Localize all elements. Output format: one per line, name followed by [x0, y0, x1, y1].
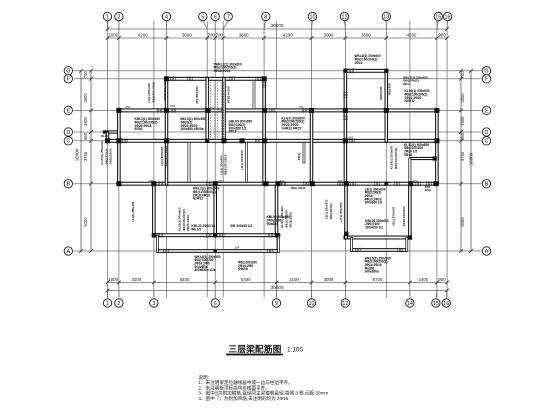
beam bath beam (14-15) — [410, 157, 438, 159]
beam KL on axis E (2-15) — [117, 109, 438, 112]
column C/2 — [116, 138, 121, 143]
svg-text:250: 250 — [125, 105, 130, 109]
beam grid 13 (G-C) — [385, 69, 388, 142]
svg-text:ΦΦ 300x65 1/2: ΦΦ 300x65 1/2 — [230, 224, 252, 228]
svg-text:KL30: KL30 — [101, 134, 108, 138]
svg-text:16: 16 — [445, 14, 451, 20]
grid bubble A left — [64, 247, 72, 255]
grid line 7 — [222, 21, 224, 298]
svg-text:200: 200 — [148, 179, 153, 183]
stirrup ticks grid 12 beam G-F — [343, 93, 348, 98]
axis line G — [74, 70, 482, 72]
leader line grid 6 top — [214, 21, 216, 29]
svg-text:4、图中「」为附加吊筋,未注明的均为 2Φ16: 4、图中「」为附加吊筋,未注明的均为 2Φ16 — [198, 395, 288, 402]
svg-text:9: 9 — [275, 301, 278, 307]
column B/10 — [310, 181, 315, 186]
stirrup ticks B beam x418 — [416, 181, 421, 186]
column C/1 — [105, 138, 110, 143]
dimension ticks left individual line — [89, 69, 93, 253]
grid bubble B right — [482, 180, 490, 188]
grid line 6 — [214, 21, 216, 298]
grid bubble G left — [64, 67, 72, 75]
grid bubble D right — [482, 128, 490, 136]
column E/10 — [309, 108, 314, 113]
dimension line right individual — [460, 71, 462, 251]
beam grid 3 below B — [153, 185, 156, 237]
grid line 10 — [311, 21, 313, 298]
axis line E — [74, 109, 482, 111]
leader line grid 1 bottom — [107, 291, 109, 299]
stirrup ticks B beam x306 — [304, 181, 309, 186]
svg-text:200: 200 — [413, 179, 418, 183]
beam KL on axis B (2-15) — [117, 182, 438, 185]
beam D axis stub (1-2) — [104, 131, 119, 133]
leader line grid 3 bottom — [153, 291, 155, 299]
stirrup ticks mid beam right of 3 — [158, 233, 163, 238]
stirrup ticks A beam x166 — [164, 249, 169, 254]
svg-text:2: 2 — [117, 301, 120, 307]
svg-text:D: D — [485, 130, 489, 136]
stirrup ticks C beam right of 12 — [350, 139, 355, 144]
stirrup ticks B beam x377 — [375, 181, 380, 186]
column C/7 — [221, 138, 226, 143]
svg-text:700: 700 — [460, 71, 465, 79]
grid bubble 15 bottom — [432, 299, 440, 307]
grid bubble 1 bottom — [103, 299, 111, 307]
svg-text:3000: 3000 — [324, 32, 334, 37]
beam stair wall grid 5 (F-C) — [206, 77, 209, 142]
svg-text:3100: 3100 — [132, 277, 142, 282]
svg-text:900: 900 — [438, 32, 446, 37]
svg-text:3100: 3100 — [289, 277, 299, 282]
beam KL on axis F (4-8) — [167, 77, 267, 80]
svg-text:850: 850 — [83, 132, 88, 140]
beam grid 1 (D-C) — [106, 132, 109, 141]
grid bubble 2 bottom — [115, 299, 123, 307]
grid line 13 — [385, 21, 387, 298]
grid bubble 12 bottom — [341, 299, 349, 307]
svg-text:6000: 6000 — [83, 217, 88, 227]
beam partition beam x189 (C-B) — [188, 142, 190, 182]
svg-text:2: 2 — [117, 14, 120, 20]
grid line 4 — [166, 21, 168, 298]
svg-text:5400: 5400 — [180, 277, 190, 282]
column mid/12 — [344, 232, 348, 236]
svg-text:4: 4 — [165, 14, 168, 20]
svg-text:D: D — [66, 130, 70, 136]
column C/15 — [434, 138, 439, 143]
stirrup ticks grid 12 beam below E — [343, 115, 348, 120]
column E/2 — [116, 108, 121, 113]
grid bubble F left — [64, 75, 72, 83]
stair flight dashed beams (grids 5-7) — [208, 82, 224, 138]
dimension ticks left overall line — [79, 69, 83, 253]
beam balcony edge x407 (A) — [406, 238, 408, 252]
svg-text:2Φ(1): 2Φ(1) — [297, 153, 301, 161]
grid bubble 3 bottom — [150, 299, 158, 307]
beam WKL on axis A right (12-14) — [351, 249, 408, 252]
leader line grid 12 bottom — [344, 291, 346, 299]
grid bubble 6 bottom — [211, 299, 219, 307]
grid bubble 12 top — [340, 12, 348, 20]
svg-text:10: 10 — [309, 301, 315, 307]
grid bubble C right — [482, 137, 490, 145]
grid line 16 — [446, 21, 448, 298]
grid bubble D left — [64, 128, 72, 136]
leader line grid 4 top — [166, 21, 168, 29]
svg-text:2Φ16 250x400: 2Φ16 250x400 — [163, 80, 167, 100]
column B/3 — [151, 181, 156, 186]
svg-text:C: C — [485, 139, 489, 145]
beam KL on axis C (1-15) — [106, 139, 438, 142]
grid bubble A right — [482, 247, 490, 255]
svg-text:1900: 1900 — [83, 116, 88, 126]
beam grid 12 (G-B) — [344, 69, 347, 185]
svg-text:254: 254 — [235, 245, 240, 249]
grid line 3 — [153, 21, 155, 298]
beam grid 4 (F-B) — [165, 77, 168, 185]
svg-text:L1(1) 200x400Φ8@200 3Φ16: L1(1) 200x400Φ8@200 3Φ16 — [160, 146, 168, 167]
svg-text:6: 6 — [214, 14, 217, 20]
grid bubble E right — [482, 106, 490, 114]
stirrup ticks B beam left of 12 — [338, 181, 343, 186]
dimension ticks bottom individual line — [106, 281, 449, 285]
beam balcony edge x278 (A) — [278, 235, 280, 252]
svg-text:B: B — [485, 182, 489, 188]
grid line 2 — [118, 21, 120, 298]
svg-text:14: 14 — [407, 301, 413, 307]
grid line 9 — [276, 21, 278, 298]
grid line 5 — [206, 21, 208, 298]
svg-text:700: 700 — [216, 32, 224, 37]
dimension line right overall — [470, 71, 472, 251]
svg-text:850: 850 — [460, 132, 465, 140]
svg-text:4200: 4200 — [138, 32, 148, 37]
grid bubble 7 top — [224, 12, 232, 20]
svg-text:B: B — [66, 182, 70, 188]
grid bubble 1 top — [103, 12, 111, 20]
leader line grid 5 top — [203, 21, 207, 29]
stirrup ticks G beam right of 12 — [349, 69, 354, 74]
stair tread line — [208, 107, 223, 112]
dimension line bottom overall — [108, 290, 448, 292]
column F/4 — [164, 76, 169, 81]
column mid/14 — [408, 235, 412, 239]
stirrup ticks B beam left of 6 — [206, 181, 211, 186]
svg-text:15: 15 — [433, 301, 439, 307]
grid bubble 16 bottom — [442, 299, 450, 307]
svg-text:3600: 3600 — [361, 32, 371, 37]
svg-text:10: 10 — [310, 14, 316, 20]
svg-text:700: 700 — [208, 32, 216, 37]
svg-text:1000: 1000 — [108, 32, 118, 37]
column mid/9 — [275, 233, 279, 237]
leader line grid 10 top — [312, 21, 313, 29]
column B/15 — [433, 181, 438, 186]
svg-text:3600: 3600 — [239, 32, 249, 37]
svg-text:12: 12 — [342, 301, 348, 307]
svg-text:900: 900 — [438, 277, 446, 282]
column B/14 — [408, 181, 413, 186]
leader line grid 6 bottom — [214, 291, 216, 299]
svg-text:3: 3 — [152, 301, 155, 307]
column E/4 — [164, 108, 169, 113]
column E/15 — [434, 108, 439, 113]
beam grid 12 below B — [345, 185, 348, 239]
svg-text:PTB1 h=100: PTB1 h=100 — [227, 86, 231, 103]
svg-text:L11(1) 250x400: L11(1) 250x400 — [131, 201, 135, 222]
beam stair wall grid 7 (F-C) — [223, 77, 226, 142]
stirrup ticks mid beam left of 6 — [206, 233, 211, 238]
leader line grid 16 top — [446, 21, 448, 29]
svg-text:三层梁配筋图: 三层梁配筋图 — [229, 343, 282, 354]
beam grid 6 below B — [214, 185, 217, 237]
grid line 12 — [344, 21, 346, 298]
axis line D — [74, 131, 482, 133]
column B/13 — [384, 182, 388, 186]
beam intermediate beam left (3-9) — [152, 234, 279, 237]
stirrup ticks E beam right of 4 — [171, 108, 176, 113]
svg-text:4200: 4200 — [283, 32, 293, 37]
svg-text:750: 750 — [299, 105, 304, 109]
svg-text:200: 200 — [338, 179, 343, 183]
stirrup ticks A beam x270 — [268, 249, 273, 254]
svg-text:1: 1 — [106, 301, 109, 307]
svg-text:6000: 6000 — [460, 217, 465, 227]
stirrup ticks B beam right of 3 — [158, 181, 163, 186]
column B/9 — [275, 181, 280, 186]
svg-text:XT1 Φ8@200: XT1 Φ8@200 — [195, 86, 199, 104]
beam balcony edge x157 (A) — [156, 235, 158, 252]
leader line grid 7 top — [223, 21, 228, 29]
beam grid 9 below B — [275, 185, 278, 237]
svg-text:700: 700 — [83, 71, 88, 79]
svg-text:3750: 3750 — [83, 151, 88, 161]
svg-text:12: 12 — [342, 14, 348, 20]
leader line grid 8 top — [264, 21, 266, 29]
title underline — [226, 354, 283, 356]
dimension ticks right overall line — [469, 69, 473, 253]
axis line B — [74, 183, 482, 185]
stirrup ticks B beam left of 15 — [427, 181, 432, 186]
leader line grid 13 top — [385, 21, 387, 29]
beam grid 8 (F-B) — [263, 77, 266, 185]
leader line grid 2 top — [118, 21, 120, 29]
grid bubble 4 top — [162, 12, 170, 20]
svg-text:L3(1) 200x400: L3(1) 200x400 — [240, 150, 244, 170]
svg-text:16000: 16000 — [469, 152, 474, 165]
beam grid 14 below B — [409, 185, 412, 239]
svg-text:3000: 3000 — [324, 277, 334, 282]
beam WKL on axis A left (3-9) — [157, 250, 279, 253]
grid bubble 6 top — [211, 12, 219, 20]
beam grid 15 (E-B) — [436, 109, 439, 185]
beam grid 10 (E-B) — [310, 109, 313, 182]
svg-text:1900: 1900 — [460, 116, 465, 126]
svg-text:13: 13 — [383, 14, 389, 20]
grid bubble F right — [482, 75, 490, 83]
svg-text:E: E — [485, 108, 489, 114]
svg-text:30000: 30000 — [271, 23, 284, 28]
grid line 8 — [263, 21, 265, 298]
leader line grid 14 bottom — [409, 291, 411, 299]
grid bubble 8 top — [262, 12, 270, 20]
grid bubble 15 top — [434, 12, 442, 20]
stirrup ticks grid 8 beam below F — [262, 83, 267, 88]
column C/12 — [343, 138, 348, 143]
beam balcony edge x351 (A) — [351, 238, 353, 252]
leader line grid 10 bottom — [311, 291, 313, 299]
grid bubble 16 top — [443, 12, 451, 20]
column B/12 — [344, 181, 349, 186]
dimension line left overall — [80, 71, 82, 251]
column F/8 — [262, 76, 267, 81]
stirrup ticks E beam right of 8 — [270, 108, 275, 113]
column C/9 — [262, 138, 267, 143]
column C/4 — [164, 138, 169, 143]
stirrup ticks mid beam right of 6 — [219, 233, 224, 238]
grid bubble 10 top — [308, 12, 316, 20]
dimension line left individual — [90, 71, 92, 251]
grid bubble 2 top — [115, 12, 123, 20]
svg-text:7: 7 — [227, 14, 230, 20]
column A/6 — [213, 249, 217, 252]
dimension line top individual — [108, 37, 448, 39]
svg-text:A: A — [485, 249, 489, 255]
dimension ticks top individual line — [106, 36, 449, 40]
svg-text:200: 200 — [218, 179, 223, 183]
beam hanger beam x254 (F-E) — [253, 80, 255, 109]
svg-text:KL28(1) 300x600Φ8@100/200(2): KL28(1) 300x600Φ8@100/200(2) — [390, 145, 398, 169]
column E/5 — [205, 108, 210, 113]
grid bubble C left — [64, 137, 72, 145]
column mid/6 — [213, 233, 217, 237]
beam grid 2 (E-B) — [118, 109, 121, 185]
svg-text:L7(1) 250x500: L7(1) 250x500 — [339, 202, 343, 222]
svg-text:1000: 1000 — [108, 277, 118, 282]
column G/12 — [343, 69, 347, 73]
column D stub end — [103, 130, 106, 133]
svg-text:2Φ16 250x500: 2Φ16 250x500 — [402, 206, 406, 226]
leader line grid 1 top — [107, 21, 109, 29]
svg-text:2400: 2400 — [419, 277, 429, 282]
svg-text:G: G — [66, 69, 70, 75]
stirrup ticks A beam right x400 — [398, 248, 403, 253]
svg-text:A: A — [66, 249, 70, 255]
stirrup ticks mid beam left of 9 — [268, 233, 273, 238]
dimension ticks right individual line — [459, 69, 463, 253]
svg-text:3750: 3750 — [460, 151, 465, 161]
stirrup ticks B beam x397 — [395, 181, 400, 186]
stirrup ticks F beam x190 — [188, 77, 193, 82]
beam partition beam x246 (C-B) — [245, 142, 247, 182]
column C/5 — [205, 139, 209, 143]
svg-text:16000: 16000 — [74, 148, 79, 161]
dimension line bottom individual — [108, 282, 448, 284]
column G/13 — [384, 69, 388, 73]
svg-text:L2(1) 200x400Φ8@200 2Φ14: L2(1) 200x400Φ8@200 2Φ14 — [219, 154, 227, 175]
svg-text:L9(1) 250x500: L9(1) 250x500 — [391, 206, 395, 226]
column B/2 — [116, 181, 121, 186]
svg-text:300: 300 — [349, 135, 354, 139]
leader line grid 15 top — [437, 21, 438, 29]
stirrup ticks B beam right of 9 — [281, 181, 286, 186]
svg-text:Φ8@ 2Φ16: Φ8@ 2Φ16 — [291, 186, 306, 190]
svg-text:3600: 3600 — [182, 32, 192, 37]
stirrup ticks B beam right of 12 — [351, 181, 356, 186]
svg-text:5400: 5400 — [241, 277, 251, 282]
svg-text:5700: 5700 — [373, 277, 383, 282]
leader line grid 15 bottom — [436, 291, 437, 299]
axis line F — [74, 78, 482, 80]
axis line C — [74, 140, 482, 142]
svg-text:L5(1) 250x400Φ8@200 2Φ16: L5(1) 250x400Φ8@200 2Φ16 — [147, 82, 155, 103]
svg-text:G: G — [484, 69, 488, 75]
svg-text:Φ8@200: Φ8@200 — [387, 83, 391, 95]
dimension ticks top overall line — [106, 27, 449, 31]
beam grid 14 partial (C-B) — [409, 158, 411, 182]
stirrup ticks C beam left of 9 — [255, 139, 260, 144]
column E/12 — [343, 108, 348, 113]
grid bubble 5 top — [199, 12, 207, 20]
svg-text:1:100: 1:100 — [287, 347, 303, 354]
stirrup ticks E beam left of 4 — [157, 108, 162, 113]
grid line 14 — [409, 21, 411, 298]
axis line A — [74, 250, 482, 252]
column E/13 — [384, 108, 389, 113]
svg-text:200: 200 — [170, 104, 175, 108]
stirrup ticks C beam right of 2 — [123, 139, 128, 144]
grid bubble 14 bottom — [406, 299, 414, 307]
column mid/3 — [152, 233, 156, 237]
stirrup ticks A beam right x358 — [356, 248, 361, 253]
leader line grid 2 bottom — [118, 291, 120, 299]
svg-text:2Φ8@200: 2Φ8@200 — [379, 86, 383, 100]
svg-text:4500: 4500 — [407, 32, 417, 37]
svg-text:15: 15 — [435, 14, 441, 20]
leader line grid 12 top — [344, 21, 347, 29]
grid bubble 9 bottom — [272, 299, 280, 307]
leader line grid 16 bottom — [445, 291, 448, 299]
column E/8 — [262, 108, 267, 113]
stirrup ticks F beam left of 8 — [256, 77, 261, 82]
column B/8 — [263, 181, 268, 186]
column C/8m — [239, 138, 244, 143]
stirrup ticks F beam right of 4 — [171, 77, 176, 82]
grid line 1 — [107, 21, 109, 298]
column B/6 — [213, 181, 218, 186]
svg-text:200: 200 — [280, 179, 285, 183]
svg-text:C: C — [66, 139, 70, 145]
column beam end 15/158 — [433, 156, 437, 160]
leader line grid 9 bottom — [276, 291, 278, 299]
stirrup ticks E beam left of 10 — [302, 108, 307, 113]
beam intermediate beam right (12-14) — [344, 236, 411, 239]
svg-text:8: 8 — [264, 14, 267, 20]
grid bubble B left — [64, 180, 72, 188]
beam hanging beam x304 (C-) — [303, 142, 305, 163]
beam WKL on axis G (12-13) — [345, 69, 387, 72]
svg-text:16: 16 — [443, 301, 449, 307]
svg-text:5: 5 — [201, 14, 204, 20]
svg-text:30000: 30000 — [271, 285, 284, 290]
grid bubble 13 top — [382, 12, 390, 20]
svg-text:6: 6 — [214, 301, 217, 307]
dimension ticks bottom overall line — [106, 289, 449, 293]
grid line 15 — [436, 21, 438, 298]
grid bubble E left — [64, 106, 72, 114]
dimension line top overall — [108, 28, 448, 30]
